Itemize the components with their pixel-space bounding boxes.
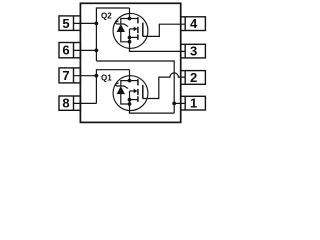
Q1 schottky cathode bar [116, 83, 128, 88]
node Q1 drain junction [128, 79, 132, 83]
pin 4 lead tab [181, 17, 206, 31]
wire D1 bus vertical pins 7-8 [96, 70, 129, 104]
node pin6 junction [95, 49, 99, 53]
Q1 gate bar [142, 85, 144, 99]
node S1 phase junction [172, 102, 176, 106]
Q2 diode anode link [121, 31, 130, 41]
Q1 channel segment bottom [137, 96, 139, 102]
transistor Q1 symbol circle [113, 76, 148, 111]
wire pin8 to D1 bus [73, 102, 96, 104]
Q1 channel segment top [137, 79, 139, 85]
package outline SO-8 body [80, 3, 180, 122]
Q2 body diode triangle [117, 24, 125, 32]
Q1 source vertical [129, 91, 131, 113]
node Q2 bottom stub junction [128, 36, 132, 40]
pin 8 lead tab [59, 96, 80, 110]
Q2 body arrowhead [134, 27, 138, 32]
Q2 channel segment top [137, 17, 139, 23]
wire D2 bus vertical pins 5-6 [96, 8, 129, 61]
Q2 gate wire to pin 4 [143, 24, 185, 36]
svg-text:3: 3 [190, 44, 197, 59]
Q1 body diode triangle [117, 86, 125, 94]
pin 5 lead tab [59, 16, 80, 31]
wire pin5 to D2 bus [73, 22, 96, 24]
pin 3 lead tab [181, 44, 206, 58]
Q1 drain entry wire [129, 70, 131, 81]
node pin5 junction [95, 22, 99, 26]
wire pin6 to D2 bus [73, 49, 96, 51]
svg-text:8: 8 [62, 96, 69, 111]
Q2 diode cathode link [121, 19, 130, 24]
wire phase node D2-S1 [96, 61, 174, 113]
Q1 top stub [130, 80, 138, 82]
pin 7 lead tab [59, 68, 80, 83]
node Q1 bottom stub junction [128, 98, 132, 102]
pin 1 lead tab [181, 96, 206, 110]
Q2 body arrow [130, 28, 135, 30]
wire pin7 to D1 bus [73, 75, 96, 77]
Q2 gate bar [142, 23, 144, 37]
Q1 bottom stub [130, 99, 138, 101]
Q1 channel segment middle [137, 89, 139, 95]
pin 2 lead tab [181, 71, 206, 85]
Q2 source vertical [129, 29, 131, 51]
node Q1 anode junction [128, 102, 132, 106]
Q2 bottom stub [130, 36, 138, 38]
Q1 diode anode link [121, 94, 130, 105]
svg-text:1: 1 [190, 96, 197, 111]
node Q2 drain junction [128, 17, 132, 21]
Q2 top stub [130, 18, 138, 20]
Q2 drain entry wire [129, 8, 131, 19]
svg-text:5: 5 [62, 16, 69, 31]
Q1 gate wire to pin 2 with hop [143, 73, 185, 99]
node pin7 junction [95, 74, 99, 78]
svg-text:2: 2 [190, 70, 197, 85]
svg-text:Q2: Q2 [101, 12, 112, 21]
Q1 diode cathode link [121, 81, 130, 86]
Q1 body arrow [130, 90, 135, 92]
Q2 channel segment bottom [137, 34, 139, 40]
transistor Q2 symbol circle [113, 13, 148, 48]
Q1 body arrowhead [134, 89, 138, 94]
Q2 source wire to pin 3 [130, 48, 186, 51]
svg-text:7: 7 [62, 68, 69, 83]
wire S1 to pin 1 [174, 102, 185, 104]
svg-text:6: 6 [62, 43, 69, 58]
node Q2 anode junction [128, 40, 132, 44]
Q2 channel segment middle [137, 27, 139, 33]
svg-text:4: 4 [190, 16, 198, 31]
svg-text:Q1: Q1 [101, 73, 112, 82]
pin 6 lead tab [59, 43, 80, 58]
Q2 schottky cathode bar [116, 21, 128, 26]
Q1 source wire down [130, 111, 175, 114]
